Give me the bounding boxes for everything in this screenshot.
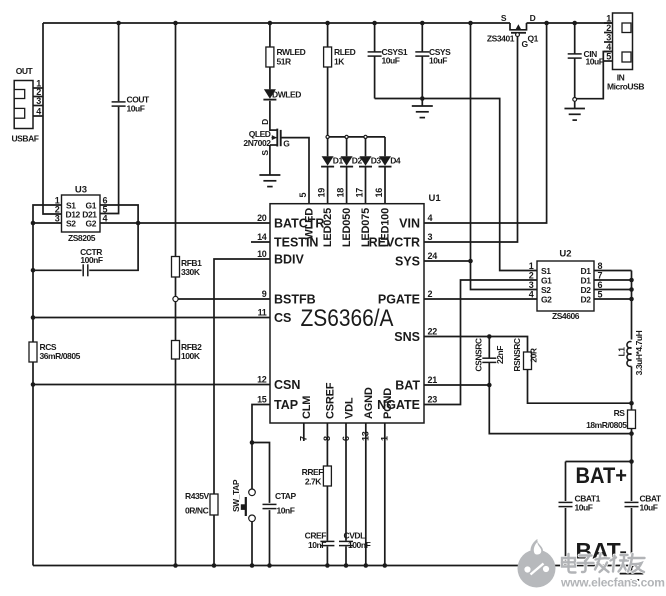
svg-text:SYS: SYS [395,255,420,269]
svg-text:S1: S1 [541,266,551,276]
svg-text:LED025: LED025 [322,208,334,247]
wire: CSYS branch [421,23,423,99]
svg-text:D1: D1 [581,276,592,286]
svg-text:U2: U2 [559,249,571,260]
svg-text:D2: D2 [581,285,592,295]
resistor RFB2 [172,341,203,362]
svg-text:S2: S2 [66,219,76,229]
wire: CS net [33,317,270,319]
svg-text:D1: D1 [581,266,592,276]
wire: BSTFB stub [178,298,270,300]
U1 pin label TESTIN [274,236,318,250]
svg-text:WLED: WLED [303,208,315,240]
svg-text:D2: D2 [581,295,592,305]
node circles on LED bus [326,135,367,138]
U1 pin number 20 [257,213,267,223]
wire: CBAT1 branch [565,462,567,566]
connector IN MicroUSB [607,13,644,92]
svg-text:8: 8 [598,261,603,271]
U1 pin number 12 [257,375,267,385]
svg-text:6: 6 [598,280,603,290]
U2 pin number 7 [598,271,603,281]
U3 pin number 4 [103,214,108,224]
svg-text:RREF: RREF [302,467,324,477]
svg-text:CTAP: CTAP [275,491,296,501]
U1 pin label LED050 [341,208,353,247]
svg-text:RLED: RLED [334,47,356,57]
svg-text:CLM: CLM [301,396,313,419]
U1 pin label SNS [394,330,420,344]
capacitor CCTR [80,247,103,276]
svg-text:1K: 1K [334,57,345,67]
svg-text:1: 1 [606,14,611,24]
svg-text:D: D [530,13,536,23]
U1 pin label SYS [395,255,420,269]
svg-text:RWLED: RWLED [277,47,306,57]
svg-text:SNS: SNS [394,330,420,344]
wire: BAT net [424,384,489,386]
resistor RSNSRC [512,338,538,372]
U1 pin label WLED [303,208,315,240]
svg-text:10uF: 10uF [429,56,447,66]
svg-text:L1: L1 [616,347,626,357]
U1 pin label BAT [395,379,420,393]
svg-text:BATCTR: BATCTR [274,217,324,231]
svg-text:51R: 51R [277,57,292,67]
svg-text:18: 18 [336,188,346,198]
U3 pin number 5 [103,205,108,215]
wire: RWLED branch [269,23,271,131]
U2 pin number 1 [529,261,534,271]
svg-text:www.elecfans.com: www.elecfans.com [560,576,665,590]
svg-text:4: 4 [103,214,108,224]
resistor RLED [324,47,356,67]
U1 pin number 14 [257,232,267,242]
svg-text:G: G [522,39,529,49]
svg-text:DWLED: DWLED [272,90,301,100]
U1 pin number 10 [257,249,267,259]
svg-text:BSTFB: BSTFB [274,293,316,307]
node: BSTFB feedback tap [173,296,178,301]
U1 pin number 7 [299,436,309,441]
resistor RCS [29,342,81,362]
svg-text:0R/NC: 0R/NC [185,506,209,516]
svg-text:19: 19 [317,188,327,198]
svg-text:G1: G1 [541,276,552,286]
wire: U3 G1-G2 tie and BATCTR net [100,205,270,223]
pin number 16 [374,188,384,198]
wire: RFB divider branch x=175.5 [175,23,177,566]
U1 pin label CS [274,311,291,325]
svg-text:4: 4 [529,290,534,300]
svg-text:3: 3 [606,33,611,43]
svg-text:D: D [260,119,270,125]
capacitor COUT [112,95,150,114]
svg-text:10uF: 10uF [575,503,593,513]
U1 pin number 21 [428,375,438,385]
svg-text:3: 3 [529,280,534,290]
svg-text:S2: S2 [541,285,551,295]
svg-text:15: 15 [257,395,267,405]
svg-text:G2: G2 [541,295,552,305]
U3 pin number 2 [55,205,60,215]
capacitor CSYS [415,47,451,66]
svg-text:R435V: R435V [185,491,210,501]
U1 pin label VDL [343,397,355,419]
svg-text:ZS3401: ZS3401 [487,34,515,44]
capacitor CIN [568,49,604,67]
U2 pin number 4 [529,290,534,300]
wire: CTAP branch [252,443,270,566]
USBAF pin number 1 [36,79,41,89]
wire: SNS net to RSNSRC [424,337,528,353]
U1 pin number 4 [428,213,433,223]
capacitor CBAT1 [559,494,601,513]
svg-text:23: 23 [428,395,438,405]
svg-text:Q1: Q1 [528,34,539,44]
wire: SYS net [424,23,471,261]
svg-text:BAT: BAT [395,379,420,393]
svg-text:SW_TAP: SW_TAP [231,479,241,512]
U2 pin number 3 [529,280,534,290]
svg-text:100K: 100K [181,351,201,361]
MicroUSB pin number 4 [606,42,611,52]
svg-text:2: 2 [606,23,611,33]
svg-text:100nF: 100nF [80,255,103,265]
wire: REVCTR net to Q1 gate [424,36,518,242]
svg-text:22: 22 [428,327,438,337]
wire: NGATE net to U2 G1 [424,280,537,405]
resistor RFB1 [172,257,203,278]
svg-text:D4: D4 [390,155,401,165]
svg-text:RS: RS [614,408,626,418]
wire: MicroUSB pin4/5 to gnd [577,52,613,99]
U2 pin number 6 [598,280,603,290]
svg-text:MicroUSB: MicroUSB [607,82,644,92]
wire: CBAT branch [631,462,633,566]
op-amp U1 ZS6366/A main IC [270,193,441,423]
svg-text:USBAF: USBAF [11,134,38,144]
U1 pin label LED025 [322,208,334,247]
MicroUSB pin number 5 [606,52,611,62]
svg-text:BAT+: BAT+ [576,463,628,488]
wire: LED anode bus [328,136,385,138]
svg-text:330K: 330K [181,267,201,277]
wire: U2 S2 to SYS [471,261,538,290]
transistor Q1 ZS3401 [487,13,539,49]
svg-text:10uF: 10uF [640,503,658,513]
MicroUSB pin number 3 [606,33,611,43]
watermark elecfans logo and text [518,539,665,590]
capacitor CSNSRC [473,337,505,386]
svg-text:CSNSRC: CSNSRC [473,338,483,372]
inductor L1 [616,330,644,410]
svg-text:ZS8205: ZS8205 [68,233,96,243]
U1 pin number 23 [428,395,438,405]
svg-text:5: 5 [606,52,611,62]
MicroUSB pin number 1 [606,14,611,24]
U1 pin label CSN [274,378,300,392]
svg-text:VDL: VDL [343,397,355,419]
pin number 17 [355,188,365,198]
wire: MicroUSB pin stubs [604,23,613,61]
capacitor CTAP [263,491,297,516]
LED D3 [359,155,381,166]
U1 pin number 1 [380,436,390,441]
transistor QLED 2N7002 [243,119,290,175]
U1 pin label VIN [399,217,420,231]
node BAT- label [576,539,628,564]
U3 pin number 6 [103,196,108,206]
svg-text:11: 11 [258,308,267,318]
wire: BDIV net to R435V [214,259,270,566]
U1 pin label CLM [301,396,313,419]
wire: QLED gate to WLED pin5 [281,138,309,204]
resistor RS [586,408,635,430]
svg-text:ZS4606: ZS4606 [552,311,580,321]
wire: SYS cap ground bus to U2 S1 [375,99,537,271]
ground (CIN node) [564,101,585,120]
wire: RLED branch [327,23,329,137]
svg-text:2.7K: 2.7K [305,477,322,487]
svg-text:TAP: TAP [274,398,298,412]
svg-text:100nF: 100nF [348,540,371,550]
U1 pin number 8 [322,436,332,441]
junctions on top rail [116,21,577,26]
U1 pin label BDIV [274,253,305,267]
U1 pin label LED100 [380,208,392,247]
U1 pin number 11 [258,308,267,318]
U1 pin label NGATE [377,398,420,412]
transistor pair U3 ZS8205 [62,184,101,243]
svg-text:10nF: 10nF [277,506,295,516]
capacitor CREF [305,531,335,550]
wire: CSYS1 branch [374,23,376,99]
USBAF pin number 4 [36,107,41,117]
svg-text:ZS6366/A: ZS6366/A [301,305,394,332]
wire: bottom common rail [33,565,632,567]
svg-text:2: 2 [428,289,433,299]
U1 pin number 24 [428,251,438,261]
capacitor CSYS1 [368,47,408,66]
pin number 19 [317,188,327,198]
svg-text:VIN: VIN [399,217,420,231]
U1 pin number 6 [341,436,351,441]
wire: VIN net [424,23,547,223]
U1 pin number 13 [361,431,371,441]
svg-text:3.3uH*4.7uH: 3.3uH*4.7uH [634,330,644,375]
svg-text:3: 3 [55,214,60,224]
svg-text:4: 4 [428,213,433,223]
svg-text:1: 1 [529,261,534,271]
svg-text:CSN: CSN [274,378,300,392]
svg-text:10uF: 10uF [127,104,145,114]
svg-text:U3: U3 [75,184,87,195]
node: CIN gnd junction [573,98,577,102]
pin number 18 [336,188,346,198]
svg-text:G2: G2 [86,219,97,229]
junction dots (nets) [31,96,634,464]
U1 pin label REVCTR [369,236,420,250]
node BAT+ label [576,463,628,488]
svg-text:3: 3 [428,232,433,242]
wire: CSREF/RREF/CREF branch [326,423,328,566]
svg-text:10uF: 10uF [382,56,400,66]
U1 pin number 15 [257,395,267,405]
transistor pair U2 ZS4606 [537,249,594,322]
U1 pin label CSREF [325,382,337,419]
wire: BAT to RS bottom [489,385,631,434]
U1 pin label LED075 [360,208,372,247]
wire: RS bottom to BAT+ node [631,429,633,462]
capacitor CVDL [339,531,371,550]
svg-text:16: 16 [374,188,384,198]
U1 pin number 3 [428,232,433,242]
svg-text:PGND: PGND [382,388,394,419]
junctions on bottom rail [173,563,634,568]
U1 pin label BATCTR [274,217,324,231]
svg-text:7: 7 [598,271,603,281]
wire: top VBUS rail [43,22,613,24]
svg-text:10: 10 [257,249,267,259]
svg-text:21: 21 [428,375,438,385]
svg-text:4: 4 [606,42,611,52]
svg-text:5: 5 [298,193,308,198]
svg-text:CSREF: CSREF [325,382,337,419]
wire: TAP net [252,405,270,566]
ground (CSYS node) [412,99,433,118]
svg-text:LED100: LED100 [380,208,392,247]
LED D4 [379,155,401,166]
wire: CIN branch [574,23,576,98]
svg-text:36mR/0805: 36mR/0805 [40,351,81,361]
wire: OUT-USBAF pin stubs [33,88,43,116]
svg-text:5: 5 [598,290,603,300]
svg-text:4: 4 [36,107,41,117]
svg-text:14: 14 [257,232,267,242]
svg-text:3: 3 [36,96,41,106]
svg-text:REVCTR: REVCTR [369,236,420,250]
LED D1 [321,155,343,166]
svg-text:18mR/0805: 18mR/0805 [586,420,627,430]
U1 pin label PGATE [378,293,420,307]
connector OUT USBAF [11,66,38,144]
wire: TESTIN stub [251,241,270,243]
U1 pin label BSTFB [274,293,316,307]
MicroUSB pin number 2 [606,23,611,33]
svg-text:2N7002: 2N7002 [243,138,271,148]
resistor RREF [302,466,332,487]
resistor R435V [185,491,218,516]
wire: CCTR loop [33,223,138,270]
U1 pin label AGND [363,387,375,419]
wire: CLM stub [303,423,305,441]
wire: LED legs to pins 19/18/17/16 [328,137,385,204]
ground (QLED source) [259,175,280,187]
svg-text:LED050: LED050 [341,208,353,247]
wire: U2 drain bus [594,271,632,340]
svg-text:BDIV: BDIV [274,253,305,267]
svg-text:OUT: OUT [16,66,34,76]
wire: left rail x=33 (U3 S1/S2 - CS - RCS - CSN - bottom) [33,205,62,566]
wire: AGND branch [365,423,367,566]
svg-text:12: 12 [257,375,267,385]
svg-text:10nF: 10nF [308,540,326,550]
wire: BAT+ node [566,461,632,463]
svg-text:17: 17 [355,188,365,198]
U3 pin number 1 [55,196,60,206]
U2 pin number 2 [529,271,534,281]
ground (battery minus) [620,566,644,587]
U1 pin label TAP [274,398,298,412]
U1 pin label PGND [382,388,394,419]
svg-text:2: 2 [529,271,534,281]
USBAF pin number 3 [36,96,41,106]
U2 pin number 8 [598,261,603,271]
USBAF pin number 2 [36,87,41,97]
wire: left drop from rail to U3 pin2 (D12) [43,23,62,214]
svg-text:20R: 20R [528,348,538,363]
wire: PGATE net to U2 G2 [424,298,537,300]
svg-text:PGATE: PGATE [378,293,420,307]
svg-text:20: 20 [257,213,267,223]
svg-text:LED075: LED075 [360,208,372,247]
svg-text:CS: CS [274,311,291,325]
svg-text:22nF: 22nF [495,346,505,364]
svg-text:9: 9 [262,289,267,299]
LED D2 [340,155,362,166]
wire: CSN net [33,384,270,386]
resistor RWLED [266,47,306,67]
capacitor CBAT [625,494,662,513]
svg-text:G: G [283,139,290,149]
svg-text:U1: U1 [429,193,442,204]
svg-text:10uF: 10uF [586,57,604,67]
wire: VDL/CVDL branch [345,423,347,566]
diode DWLED [263,89,301,99]
U2 pin number 5 [598,290,603,300]
svg-text:RSNSRC: RSNSRC [512,338,522,372]
pin number 5 (WLED) [298,193,308,198]
svg-text:24: 24 [428,251,438,261]
wire: COUT branch / U3 pin5 (D21) [100,23,119,214]
svg-text:AGND: AGND [363,387,375,419]
U1 pin number 22 [428,327,438,337]
wire: PGND branch [384,423,386,566]
switch SW_TAP [231,479,255,521]
svg-text:S: S [260,150,270,156]
U1 pin number 2 [428,289,433,299]
svg-text:S: S [501,13,507,23]
wire: RSNSRC bottom to L1/RS node [528,370,632,404]
U1 pin number 9 [262,289,267,299]
U3 pin number 3 [55,214,60,224]
